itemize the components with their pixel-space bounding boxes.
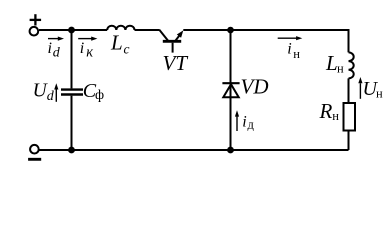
voltage arrow U_n [358, 77, 362, 99]
svg-text:VT: VT [163, 51, 189, 75]
node A junction dot (top of C filter branch) [68, 27, 75, 34]
wire: node A down to capacitor top plate [71, 30, 73, 88]
wire: L_n to R_n [348, 78, 350, 103]
label U_d [33, 80, 55, 103]
label i_n [287, 41, 300, 62]
svg-text:к: к [86, 45, 93, 61]
capacitor C_F [61, 90, 83, 95]
wire: L_c to VT collector [135, 29, 160, 31]
svg-text:L: L [110, 31, 123, 55]
wire: node B down to node D (diode branch) [230, 30, 232, 150]
label L_n [325, 51, 344, 75]
svg-text:н: н [332, 109, 339, 123]
label C_F [83, 80, 104, 103]
label U_n [363, 78, 383, 100]
terminal T1 (positive input) [30, 27, 39, 36]
svg-text:i: i [242, 114, 246, 131]
svg-text:VD: VD [241, 75, 269, 99]
resistor R_n [344, 103, 356, 131]
label i_dd [242, 114, 254, 132]
label L_c [110, 31, 130, 57]
svg-text:ф: ф [95, 88, 104, 103]
svg-text:L: L [325, 51, 338, 75]
node C junction dot (bottom of C filter branch) [68, 147, 75, 154]
inductor L_n [349, 52, 354, 78]
terminal T2 (negative input) [30, 145, 39, 154]
inductor L_c [107, 26, 134, 30]
voltage arrow U_d [54, 83, 58, 102]
node D junction dot (bottom of diode branch) [227, 147, 234, 154]
svg-text:i: i [48, 40, 52, 57]
svg-text:d: d [47, 89, 55, 104]
svg-text:н: н [376, 86, 383, 100]
minus sign [28, 158, 41, 161]
bottom wire (return rail) [39, 149, 349, 151]
transistor VT [159, 30, 183, 53]
wire: capacitor bottom plate down to node C [71, 96, 73, 150]
label R_n [319, 99, 340, 123]
svg-text:н: н [337, 61, 344, 75]
current arrow i_n [278, 36, 303, 40]
svg-text:н: н [293, 47, 300, 61]
current arrow i_k [78, 37, 97, 41]
label i_k [80, 40, 93, 61]
svg-text:д: д [248, 117, 255, 131]
current arrow i_dd [235, 110, 239, 131]
wire: VT emitter to top-right corner, down to L_n [183, 30, 348, 52]
wire: T1 to L_c (top-left horizontal) [39, 29, 107, 31]
current arrow i_d [48, 37, 64, 41]
node B junction dot (top of diode branch) [227, 27, 234, 34]
svg-text:c: c [124, 42, 130, 57]
svg-text:R: R [319, 99, 333, 123]
svg-text:i: i [287, 41, 291, 58]
plus sign [30, 14, 41, 25]
wire: R_n to bottom-right corner [348, 131, 350, 151]
svg-text:i: i [80, 40, 84, 57]
diode VD [222, 83, 239, 97]
label i_d [48, 40, 61, 61]
svg-text:d: d [53, 46, 61, 61]
